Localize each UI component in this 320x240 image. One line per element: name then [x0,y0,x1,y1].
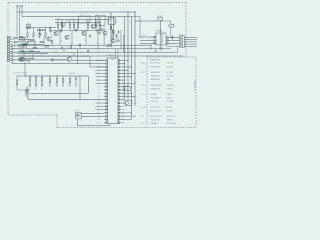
IC U1 left pin 15 [104,105,107,107]
wire R7 top lead [95,20,97,25]
wire interconnect v2 [34,42,36,49]
capacitor C17 [87,49,89,52]
resistor R81 [33,33,34,37]
diode D3 [51,59,53,61]
transistor Q11 [103,31,107,35]
svg-text:R22: R22 [86,21,89,23]
IC2 pins left [107,19,109,23]
wire below T1 v1 [150,44,152,49]
svg-text:R40 C21: R40 C21 [69,73,75,75]
svg-text:R1-R8: R1-R8 [141,63,145,65]
svg-text:PARTS LIST: PARTS LIST [151,59,161,62]
IC U1 right pin 4 [118,69,121,71]
IC U1 right pin 16 pad [118,109,120,111]
IC U1 left pin 5 [104,73,107,75]
junction U1 pin 8 bus [135,83,136,84]
wire CN1 pin 7 to circuit [18,50,40,52]
IC U1 left pin 7 [104,79,107,81]
resistor R80 [27,33,28,37]
junction vbus4-busA [134,11,135,12]
wire vert from CN area [11,45,13,64]
svg-text:BC547B: BC547B [167,107,173,109]
capacitor C10 [115,34,117,38]
IC U1 left pin 8 [104,82,107,84]
wire U1 right pin 7 to bus [121,79,124,81]
resistor R50 [29,78,30,82]
wire F1 down to T1 [159,20,161,33]
svg-text:D4: D4 [57,54,59,56]
svg-text:2k2: 2k2 [30,58,32,60]
IC U1 left pin 1 pad [106,60,108,62]
IC U1 left pin 20 [104,122,107,124]
svg-text:P19: P19 [98,119,101,121]
wire T1 out 4 [166,45,180,47]
wire R62 top [62,76,64,78]
wire terminal J1b drop [19,7,21,40]
resistor R5 [77,24,78,27]
junction bl rail 3 [49,75,50,76]
svg-text:4u7: 4u7 [73,27,76,29]
wire mid to DIP h [90,66,104,68]
resistor R38 [101,29,104,30]
transistor Q7 leads [61,23,65,27]
junction U1 pin 4 bus [128,70,129,71]
IC U1 right pin 12 [118,95,121,97]
IC U1 right pin 10 pad [118,89,120,91]
IC U1 left pin 18 pad [106,115,108,117]
svg-text:10K 1/4W: 10K 1/4W [167,67,174,69]
wire R82 bot [39,37,41,39]
IC U1 right pin 9 [118,86,121,88]
wire U1 left pin 16 ext [96,109,105,111]
svg-text:R27: R27 [84,40,87,42]
wire R65 bot [16,85,18,90]
IC U1 left pin 10 [104,89,107,91]
wire drop x123 [123,35,125,52]
wire R60 h [160,20,171,22]
resistor R52 [41,78,42,82]
IC U1 right pin 18 [118,115,121,117]
junction bl rail 2 [41,75,42,76]
frame step vertical border [56,115,58,128]
svg-text:10n: 10n [96,43,99,45]
capacitor C13 [117,30,119,34]
capacitor C1 [49,27,51,31]
connector CN1 pin 10 box [7,58,10,60]
IC U1 left pin 19 pad [106,119,108,121]
ground GND1 stem [26,86,28,94]
connector CN1 pin 11 box [7,60,10,62]
IC U1 right pin 18 pad [118,115,120,117]
resistor R23 [23,46,26,47]
resistor R34 [116,40,119,41]
wire R60 bot [49,83,51,87]
svg-text:R5: R5 [76,23,78,25]
transistor Q1 [47,37,51,41]
transistor Q11 leads [103,31,106,35]
connector CN1 pin 1 box [7,36,10,38]
wire bl verticals [88,76,90,93]
svg-text:Q6: Q6 [95,27,97,29]
transformer T1 pad L3 [154,43,156,45]
IC U1 right pin 17 pad [118,112,120,114]
wire CN1 pin 10 to circuit [18,57,34,59]
svg-text:R4: R4 [72,23,74,25]
IC U1 right pin 20 [118,122,121,124]
svg-text:C15: C15 [66,47,69,49]
frame left border [7,3,9,116]
connector CN1 pin 6 box [7,48,10,50]
IC U1 left pin 4 pad [106,69,108,71]
svg-text:Q3: Q3 [69,34,71,36]
transformer T1 core [160,33,162,45]
transistor Q7 [61,22,65,26]
wire v-drop A [110,12,112,45]
junction U1 pin 6 bus [131,76,132,77]
wire bottom rail up [109,124,111,126]
IC U1 right pin 7 [118,79,121,81]
IC U1 left pin 19 [104,118,107,120]
wire R7 bottom lead [95,28,97,31]
frame bottom-mid border [57,127,147,129]
wire upper v2 [85,31,87,46]
wire vbus 4 [134,12,136,106]
capacitor C30b [75,76,77,87]
wire U1 right pin 5 to bus [121,73,135,75]
oscillator box Y1 [76,112,82,119]
junction bl rail 4 [56,75,57,76]
connector CN1 pin 7 box [7,50,10,52]
svg-text:R9-14: R9-14 [141,72,145,74]
svg-text:IC2: IC2 [108,24,111,26]
wire R82 top [39,28,41,34]
wire U1 right pin 8 to bus [121,82,135,84]
wire CN1 pin 6 stub [10,48,12,50]
svg-text:P10: P10 [98,90,101,92]
resistor R1 [57,24,58,27]
diode D50 [29,84,31,88]
RC network box [124,87,130,91]
svg-text:Q1-Q8: Q1-Q8 [141,107,146,109]
connector CN2 pin 5 [181,46,183,47]
wire U1 left pin 3 ext [96,66,105,68]
wire CN1 pin 9 to circuit [18,55,184,57]
wire R1 bottom lead [57,28,59,31]
transformer T1 pad L1 [154,36,156,38]
wire X2 to U1 b [121,102,125,104]
wire R8 bottom lead [99,28,101,31]
resistor R22 [40,41,43,42]
wire CN1 pin 7 stub [10,50,12,52]
wire rail y22 [55,22,100,24]
transistor Q1 leads [47,37,51,41]
wire rail y60 [12,59,67,61]
IC U1 right pin 16 [118,109,121,111]
IC U1 right pin 7 pad [118,79,120,81]
wire CN2 pin 2 out [184,39,197,41]
IC U1 body [108,58,119,124]
svg-text:R6: R6 [86,23,88,25]
wire R83 top [45,28,47,34]
svg-text:C1-C6: C1-C6 [141,85,145,87]
junction F1 bus [135,21,136,22]
svg-text:C14: C14 [70,43,73,45]
svg-text:Q1: Q1 [51,36,53,38]
svg-text:P18: P18 [98,116,101,118]
junction U1 pin 2 bus [124,63,125,64]
IC U1 left pin 3 [104,66,107,68]
capacitor C72 [25,43,28,46]
svg-text:C5: C5 [44,36,46,38]
wire rail bottom bl [30,92,89,94]
diode D52 [41,84,43,88]
wire Q8 right [72,59,105,61]
capacitor C2 [75,29,77,33]
transistor Q8 leads [67,57,71,62]
transistor Q4 leads [82,32,86,36]
IC U1 left pin 8 pad [106,83,108,85]
resistor R18 [27,27,31,29]
IC2 pins right [115,19,117,23]
wire CN2 pin 3 out [184,41,197,43]
wire vbus 1 [124,17,126,99]
wire U1 right pin 6 to bus [121,76,131,78]
IC U1 right pin 2 [118,63,121,65]
wire R1 top lead [57,20,59,25]
IC U1 right pin 2 pad [118,63,120,65]
svg-text:RXD: RXD [12,39,15,41]
input terminal J1a [16,6,18,8]
wire CN1 pin 2 stub [10,39,12,41]
connector CN2 pin 2 [181,39,183,40]
wire Y1 to U1 b [81,116,104,118]
IC U1 left pin 18 [104,115,107,117]
diode D1 [51,40,53,45]
IC U1 right pin 4 pad [118,69,120,71]
junction bl rail 1 [35,75,36,76]
junction U1 pin 1 bus [128,60,129,61]
resistor R37 [70,46,71,48]
wire upper v0 [59,31,61,46]
IC U1 left pin 16 [104,109,107,111]
ground GND2 stem [160,45,162,48]
wire rail y49 [12,48,110,50]
svg-text:BC557B: BC557B [167,111,173,113]
wire Y1 to U1 a [81,113,104,115]
wire R4 top lead [73,20,75,25]
IC U1 right pin 11 [118,92,121,94]
wire R60 down [170,27,172,38]
wire R60 top [49,76,51,78]
svg-text:PULSE 4MHZ: PULSE 4MHZ [167,123,177,125]
capacitor C41 [155,50,157,52]
svg-text:VSS RB1: VSS RB1 [151,94,158,96]
wire rail52 to CN2 [177,46,179,52]
transistor Q6 leads [97,30,101,34]
IC U1 right pin 17 [118,112,121,114]
wire mid to DIP [89,56,91,67]
svg-text:R39: R39 [111,37,114,39]
resistor R21 [30,39,33,40]
wire CN1 pin 8 stub [10,53,12,55]
IC U1 left pin 7 pad [106,79,108,81]
transistor Q10 [20,57,24,61]
capacitor C77 [28,59,31,62]
LED D5 [25,89,29,93]
wire U1 top feed 1 [115,49,117,58]
wire U1 right pin 12 to bus [121,95,135,97]
svg-text:R15: R15 [27,23,30,25]
IC U1 right pin 9 pad [118,86,120,88]
wire CN2 pin 5 out [184,45,197,47]
IC U1 right pin 19 pad [118,119,120,121]
wire vbus 2 [127,12,129,100]
wire CN2 pin 1 out [184,37,197,39]
wire R63 top [69,76,71,78]
IC U1 left pin 11 [104,92,107,94]
resistor R33 [113,30,114,33]
wire top bus A [17,11,135,13]
input terminal J1b [19,6,21,8]
connector CN2 pin 1 [181,37,183,38]
transistor Q5 leads [91,25,95,29]
wire U1 left pin 13 ext [96,99,105,101]
IC U1 left pin 9 [104,86,107,88]
wire R61 top [56,76,58,78]
IC U1 left pin 10 pad [106,89,108,91]
svg-text:RC2/CCP1 RC6: RC2/CCP1 RC6 [151,116,162,118]
wire Q11 down [103,35,105,46]
ground GND2 [159,48,162,50]
resistor R8 [99,24,100,27]
IC U1 left pin 17 [104,112,107,114]
connector CN1 pin 9 box [7,55,10,57]
wire U1 left pin 1 ext [96,59,105,61]
svg-text:GND: GND [12,53,15,55]
svg-text:1N4148: 1N4148 [167,94,172,96]
svg-text:DCD: DCD [12,51,15,53]
connector CN1 pin 3 box [7,41,10,43]
resistor R70 [20,37,23,38]
wire U1 right pin 2 to bus [121,63,124,65]
wire interconnect v1 [27,40,29,45]
wire long y98 [28,99,104,101]
IC U1 right pin 3 pad [118,66,120,68]
connector CN2 pin 4 [181,43,183,44]
resistor R60 [49,78,50,83]
resistor R2 [61,24,62,27]
IC U1 left pin 14 [104,102,107,104]
svg-text:74HC04: 74HC04 [167,120,173,122]
wire CN1 pin 10 stub [10,57,12,59]
wire R80 top [27,28,29,34]
wire CN1 pin 11 to circuit [18,60,28,62]
IC U1 left pin 13 pad [106,99,108,101]
transistor Q5 [91,24,95,28]
svg-text:Z84C00 CPU: Z84C00 CPU [167,116,176,118]
notes panel box [147,57,196,128]
resistor R24 [33,47,36,48]
IC U1 right pin 13 pad [118,99,120,101]
junction U1 pin 10 bus [124,89,125,90]
wire R63 bot [69,83,71,87]
resistor R19 [38,29,41,30]
svg-text:C9: C9 [72,18,74,20]
IC U1 left pin 12 [104,95,107,97]
transistor Q2 leads [54,32,58,36]
wire R2 bottom lead [61,28,63,31]
svg-text:RC1/CCP2 RC7: RC1/CCP2 RC7 [151,111,162,113]
IC U1 left pin 4 [104,69,107,71]
transformer T1 box [156,33,166,45]
crystal box X1 [96,16,106,26]
diode D2 [79,44,81,49]
connector CN1 pin 5 box [7,46,10,48]
transistor Q4 [82,31,86,35]
wire X2 to U1 a [121,99,125,101]
wire rail y19 [55,19,111,21]
wire U1 left pin 15 ext [96,105,105,107]
capacitor C12 [49,29,51,33]
svg-text:Q11: Q11 [103,27,106,29]
junction bl rail 0 [29,75,30,76]
wire U1 left pin 14 ext [96,102,105,104]
wire U1 right pin 3 to bus [121,66,131,68]
transformer T1 pad R1 [166,37,168,39]
svg-text:C8: C8 [40,54,42,56]
wire rail y63 [12,63,96,65]
transformer T1 pad L2 [154,40,156,42]
svg-text:J1: J1 [10,14,12,16]
junction rail49 T1 [151,48,152,49]
svg-text:R3: R3 [68,23,70,25]
wire CN1 pin 4 to circuit [18,43,44,45]
svg-text:Y1 4MHz: Y1 4MHz [74,110,80,112]
IC U1 right pin 6 [118,76,121,78]
wire R61 bot [56,83,58,87]
wire CN2 pin 4 out [184,43,197,45]
transistor Q3 [65,35,69,39]
wire R8 top lead [99,20,101,25]
IC U1 left pin 6 [104,76,107,78]
IC U1 left pin 20 pad [106,122,108,124]
resistor R6 [87,24,88,27]
junction T1 in1 [140,37,141,38]
IC U1 right pin 14 pad [118,102,120,104]
IC U1 left pin 17 pad [106,112,108,114]
connector CN1 pin 2 box [7,39,10,41]
IC U1 right pin 8 pad [118,83,120,85]
junction U1 pin 3 bus [131,66,132,67]
capacitor C5 [60,29,62,33]
fuse F1 [158,18,163,21]
svg-text:LED 3MM: LED 3MM [167,101,174,103]
IC2 body [109,18,116,25]
resistor R3 [69,24,70,27]
wire bl y90 [17,89,27,91]
IC U1 left pin 14 pad [106,102,108,104]
svg-text:C3: C3 [91,18,93,20]
wire U1 left pin 5 ext [96,73,105,75]
resistor R75 [30,51,33,52]
IC U1 right pin 15 pad [118,106,120,108]
input terminal J1c [21,6,23,8]
svg-text:X1: X1 [96,14,98,16]
wire U1 right pin 11 to bus [121,92,131,94]
transistor Q10 leads [20,57,23,61]
IC U1 right pin 12 pad [118,96,120,98]
svg-text:C2: C2 [24,38,26,40]
